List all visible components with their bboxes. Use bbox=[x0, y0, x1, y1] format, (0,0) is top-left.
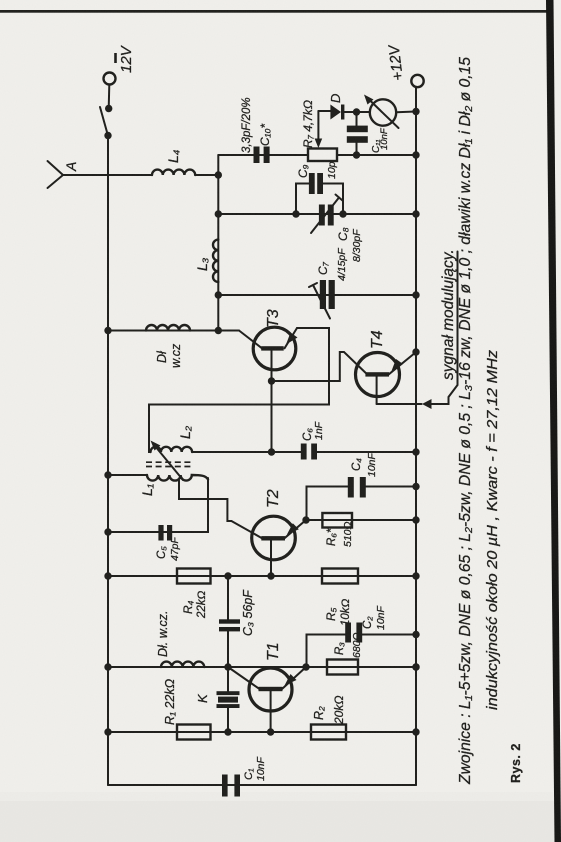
node: T4 collector takeoff bbox=[268, 377, 275, 384]
label -12V bbox=[114, 44, 135, 73]
wire: L2 to C6 line bbox=[192, 451, 301, 453]
wire: choke1 branch bbox=[108, 330, 239, 332]
capacitor C11 bbox=[347, 112, 368, 155]
wire: L4 to node line bbox=[195, 174, 218, 176]
wire: interstage node line bbox=[217, 155, 219, 331]
inductor L2 bbox=[151, 447, 193, 452]
capacitor C7 trimmer bbox=[309, 280, 335, 319]
node: C10 chain rail junction bbox=[412, 151, 419, 158]
wire: left supply link bbox=[108, 784, 416, 786]
modulation input arrow bbox=[422, 399, 432, 409]
node: R6 rail junction bbox=[412, 516, 419, 523]
transistor T1 bbox=[228, 667, 306, 732]
wire: C7 branch bbox=[218, 294, 416, 296]
wire: L1 feed from rail bbox=[108, 474, 147, 476]
resistor R3 bbox=[327, 660, 358, 675]
node: choke2 line junctions bbox=[104, 663, 419, 670]
inductor L1 bbox=[147, 475, 208, 481]
transistor T4 bbox=[356, 353, 416, 405]
resistor R5 bbox=[322, 569, 358, 584]
node: C8 rail junction bbox=[412, 210, 419, 217]
capacitor C5 bbox=[158, 525, 172, 541]
switch (in -12V lead) bbox=[100, 85, 112, 140]
quartz crystal K bbox=[217, 667, 240, 708]
potentiometer R7 bbox=[308, 149, 337, 162]
wire: C8 branch bbox=[218, 213, 416, 215]
node: C2 rail junction bbox=[412, 631, 419, 638]
diode D bbox=[330, 105, 356, 120]
node: R3 rail junction bbox=[412, 663, 419, 670]
wire: lamp link bbox=[357, 111, 371, 113]
tuning arrow through L1-L2 bbox=[151, 441, 184, 481]
node: lamp rail junction bbox=[412, 108, 419, 115]
node: C6 rail junction bbox=[412, 448, 419, 455]
inductor Dl2 choke bbox=[161, 662, 204, 667]
resistor R1 bbox=[177, 725, 211, 740]
node: L1 rail junction bbox=[104, 471, 111, 478]
node: C7 rail junction bbox=[412, 291, 419, 298]
transformer core bbox=[146, 462, 192, 466]
wiper arrow R7 bbox=[315, 111, 331, 148]
transistor T2 bbox=[231, 516, 306, 576]
node: C4 rail junction bbox=[412, 483, 419, 490]
node: T4 emitter rail junction bbox=[412, 348, 419, 355]
node: T3 base on C6 line bbox=[268, 448, 275, 455]
wire: C4 branch bbox=[307, 487, 349, 521]
wire: C3 link to R4 line bbox=[227, 631, 229, 667]
resistor R6 bbox=[322, 513, 352, 528]
inductor L4 bbox=[152, 170, 195, 175]
capacitor C9 bypass loop bbox=[292, 173, 346, 218]
node: node line junctions bbox=[215, 171, 222, 334]
resistor R2 bbox=[311, 725, 346, 740]
node: T2 emitter bbox=[302, 516, 309, 523]
inductor Dl1 choke bbox=[146, 325, 190, 331]
wire: T3 base lead bbox=[271, 351, 273, 452]
page border right black bar bbox=[546, 0, 561, 842]
page border top rule bbox=[0, 10, 547, 13]
capacitor C10 bbox=[254, 147, 270, 164]
wire: R1-R2 branch bbox=[108, 731, 416, 733]
antenna bbox=[48, 161, 153, 188]
transistor T3 bbox=[239, 327, 298, 370]
wire: T4 base to modulation input bbox=[377, 403, 422, 405]
inductor L3 bbox=[213, 240, 218, 282]
node: choke1 rail junction bbox=[104, 327, 111, 334]
capacitor C4 bbox=[348, 477, 416, 498]
wire: C10-R7 chain bbox=[218, 154, 416, 156]
node: rail junctions R1/R2 line bbox=[104, 728, 419, 735]
resistor R4 bbox=[177, 569, 211, 584]
wire: T1 emitter to C2 corner bbox=[307, 635, 346, 668]
terminal -12V bbox=[104, 73, 116, 85]
node: R4-R5 line junctions bbox=[104, 572, 419, 579]
capacitor C1 bbox=[222, 775, 240, 797]
capacitor C2 bbox=[345, 623, 416, 643]
scan shading bottom bbox=[0, 800, 561, 842]
wire: +12V bottom rail bbox=[415, 88, 417, 786]
wire: leader to caption bbox=[432, 252, 458, 405]
capacitor C6 bbox=[301, 444, 416, 460]
wire: T4 collector path bbox=[272, 352, 366, 381]
node: C5 rail junction bbox=[104, 528, 111, 535]
wire: L2 feedback to T3 emitter bbox=[149, 328, 329, 452]
node: C11 junctions bbox=[353, 108, 360, 158]
wire: T2 collector to L1 tap bbox=[179, 481, 231, 522]
label C1 10nF bbox=[243, 756, 267, 781]
terminal +12V bbox=[411, 75, 423, 87]
capacitor C8 trimmer bbox=[311, 195, 343, 234]
indicator lamp bbox=[364, 95, 416, 129]
wire: R4-R5 branch bbox=[108, 575, 416, 577]
wire: C5 branch bbox=[108, 478, 208, 532]
wire: -12V top rail bbox=[107, 136, 109, 785]
wire: R6 branch bbox=[306, 519, 416, 521]
wire: crystal line bbox=[227, 708, 229, 733]
capacitor C3 bbox=[219, 576, 240, 631]
wire: choke2-R3 branch bbox=[108, 666, 416, 668]
